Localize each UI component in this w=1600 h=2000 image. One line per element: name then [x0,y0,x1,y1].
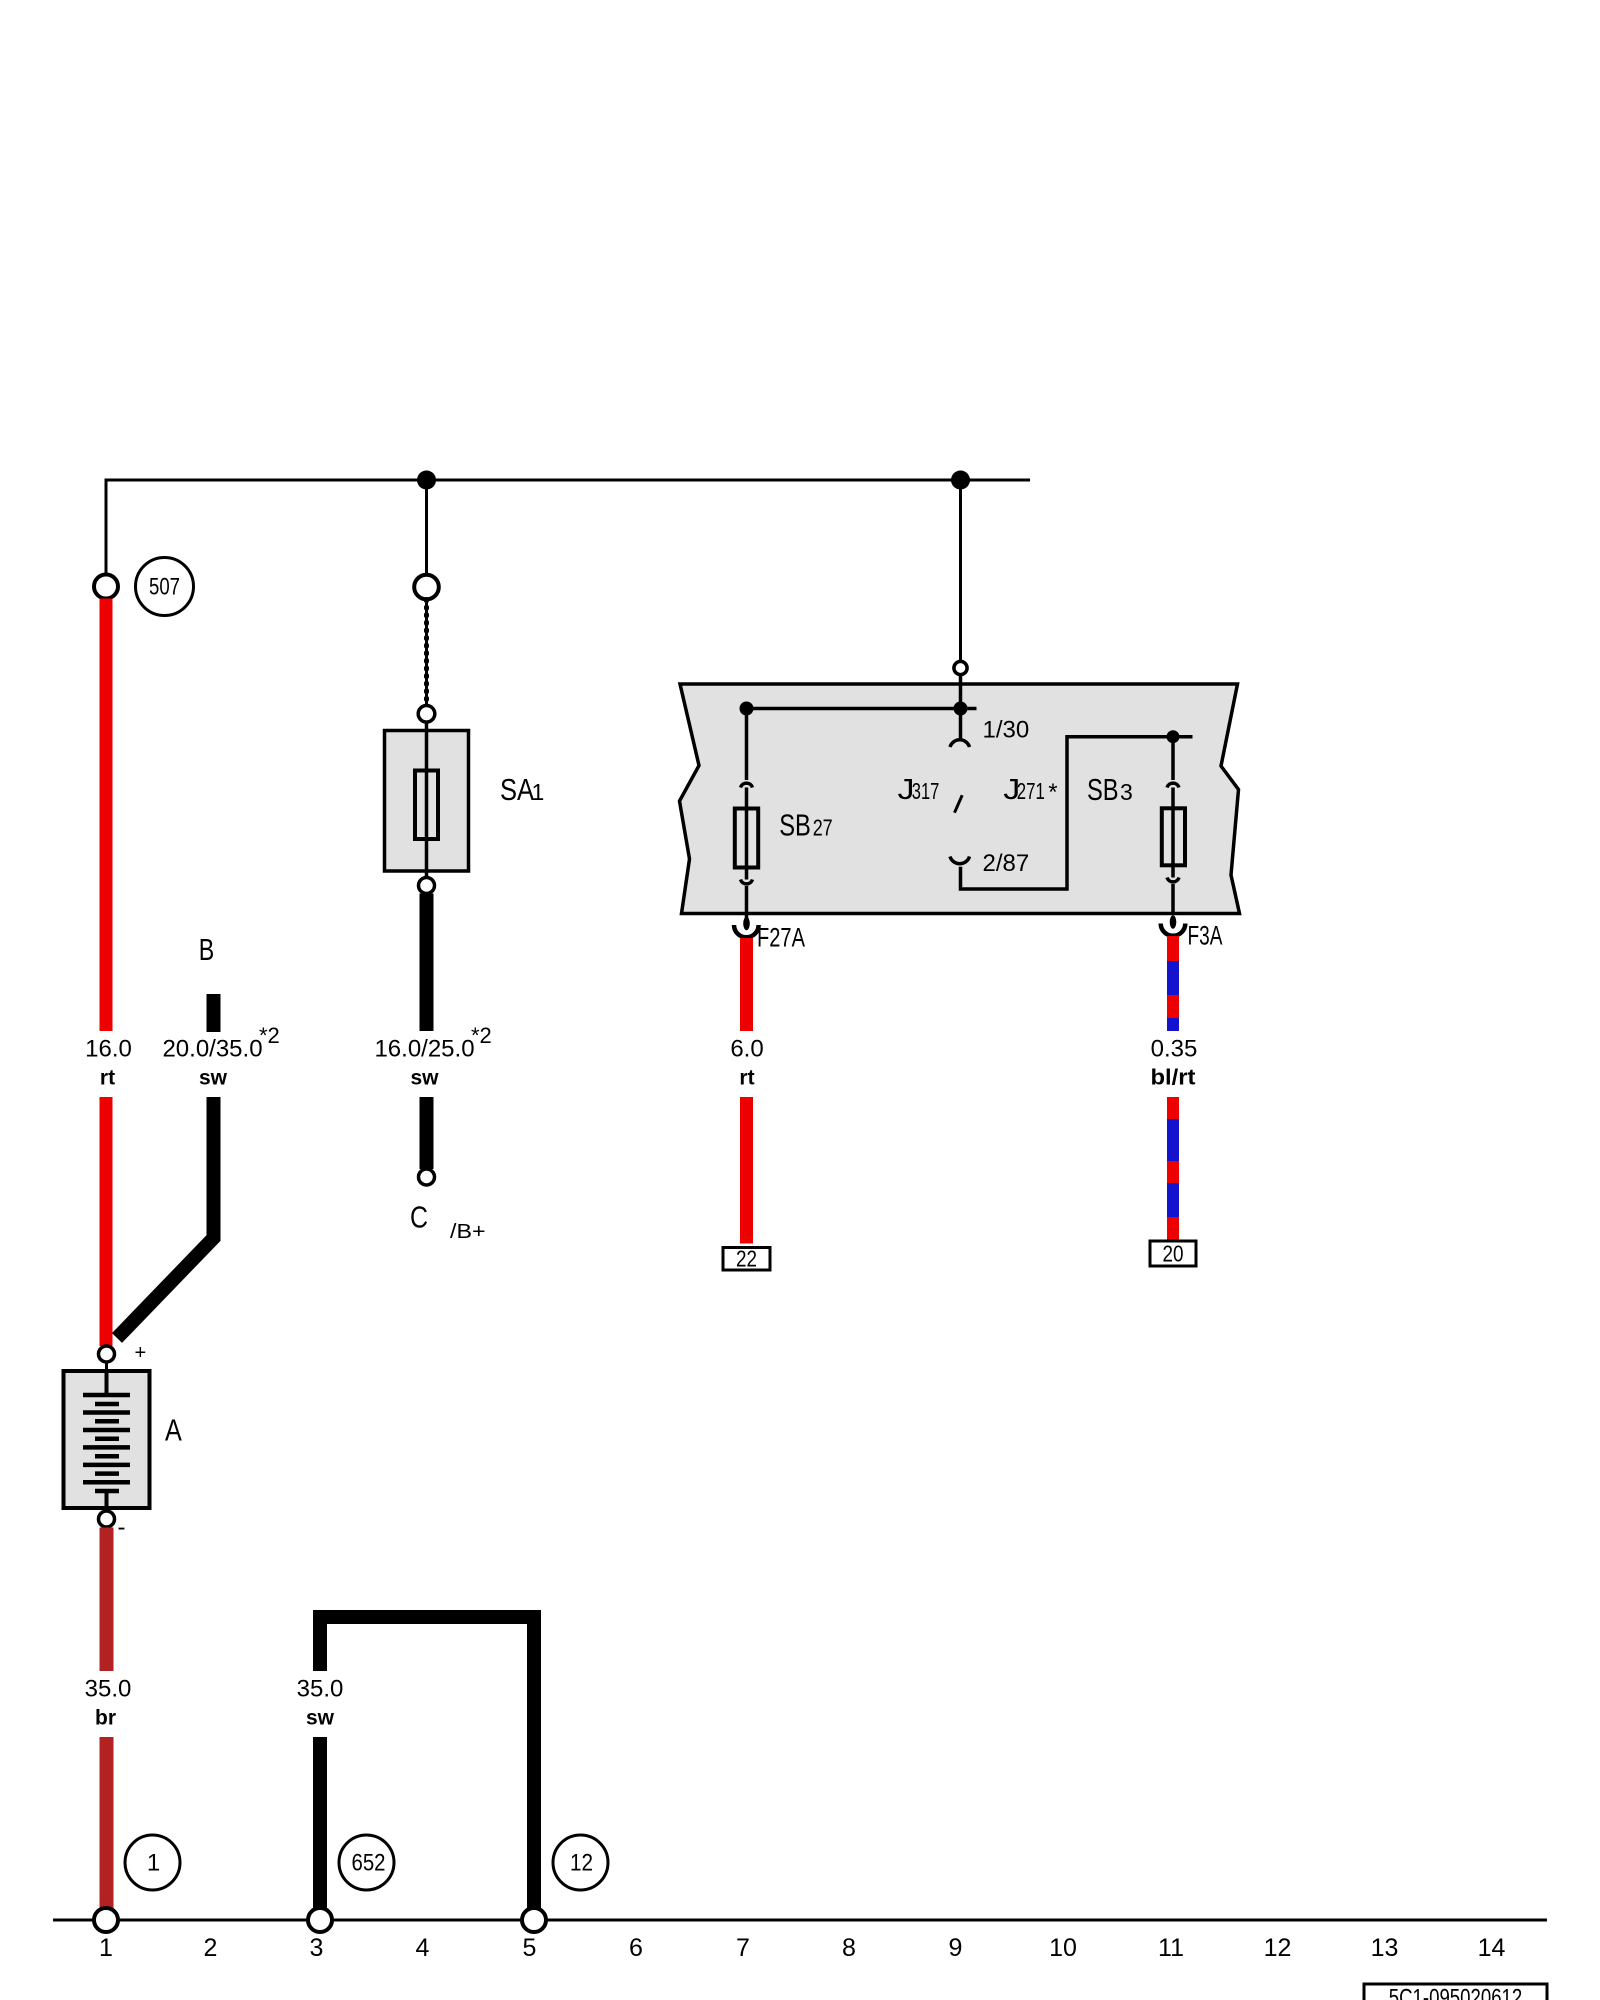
terminal circle above SA1 [414,575,439,600]
wire beaded link to SA1 [425,600,428,706]
svg-text:-: - [118,1514,126,1541]
svg-text:5C1-095020612: 5C1-095020612 [1389,1985,1523,2000]
node junction internal col7 [740,702,754,716]
wire SB27 to box edge [745,886,749,914]
svg-text:rt: rt [739,1067,754,1090]
svg-text:14: 14 [1478,1934,1506,1962]
svg-text:sw: sw [306,1707,335,1730]
fuse SB3 break arc top [1167,783,1179,787]
fuse SA1 element [415,771,438,840]
svg-text:2: 2 [204,1934,218,1962]
svg-text:6: 6 [629,1934,643,1962]
wire SB3 to box edge [1171,884,1175,914]
svg-text:/B+: /B+ [450,1221,486,1243]
wire 35.0 sw ground loop top bar [313,1610,541,1624]
wire 35.0 br lower segment [100,1737,114,1909]
svg-text:1: 1 [147,1850,160,1877]
node junction internal col9 [954,702,968,716]
fuse SB27 break arc top [741,783,753,787]
node label circle 507 [136,558,194,616]
wire 0.35 bl/rt lower segment [1167,1097,1179,1241]
connector circle below SA1 [419,878,435,894]
svg-text:br: br [95,1707,116,1730]
svg-text:F27A: F27A [757,922,805,952]
battery A box [64,1371,150,1508]
svg-text:3: 3 [1120,779,1133,805]
node junction at SB3 [1167,730,1180,743]
wire through SB27 [745,788,749,880]
wire drop to SA1 [425,480,428,575]
fuse SB3 break arc bottom [1167,878,1179,882]
wire into box [959,675,963,709]
svg-text:*: * [1048,779,1057,806]
svg-text:sw: sw [199,1067,228,1090]
svg-text:4: 4 [416,1934,430,1962]
svg-text:2/87: 2/87 [983,850,1030,877]
wire to contact 1/30 [959,709,963,740]
svg-text:27: 27 [813,815,833,841]
wire through SB3 [1171,788,1175,878]
svg-text:SB: SB [1087,772,1119,807]
svg-text:20.0/35.0: 20.0/35.0 [162,1036,262,1063]
terminal circle at node 507 [94,575,118,599]
ground terminal circle col3 [308,1908,332,1932]
svg-text:20: 20 [1163,1241,1184,1267]
wire 35.0 sw left leg lower [313,1737,327,1909]
svg-text:F3A: F3A [1188,921,1223,951]
switch lever / [955,795,963,813]
connector circle above SA1 [418,706,435,723]
node junction top bus col4 [417,471,436,490]
wire 35.0 sw left leg upper [313,1624,327,1671]
wire internal bus to SB27 [747,707,977,711]
svg-text:16.0: 16.0 [85,1036,132,1063]
svg-text:A: A [165,1413,182,1448]
svg-text:317: 317 [912,778,940,804]
svg-text:+: + [135,1342,147,1364]
svg-text:SB: SB [779,808,811,843]
wire 20.0/35.0 sw to battery positive [117,1097,214,1338]
fuse SA1 box [385,731,469,872]
ground label circle 12 [553,1835,608,1890]
svg-text:7: 7 [736,1934,750,1962]
fuse SB27 element [735,809,758,868]
wire 16.0 rt lower segment [100,1097,113,1346]
svg-text:SA: SA [500,772,534,807]
wire terminal to battery [105,1362,108,1372]
wire top bus [105,479,1031,482]
wire 20.0/35.0 sw stub [207,994,221,1032]
connector socket F3A [1161,924,1186,936]
node junction top bus col9 [951,471,970,490]
wire 2/87 to SB3 [961,737,1193,889]
svg-text:bl/rt: bl/rt [1151,1065,1197,1090]
svg-text:*2: *2 [259,1023,280,1048]
svg-text:507: 507 [149,573,180,600]
battery negative terminal circle [99,1511,115,1527]
wire through SA1 [425,722,429,878]
svg-text:rt: rt [100,1067,115,1090]
ground label circle 652 [339,1835,394,1890]
drawing number box 5C1-095020612 [1364,1984,1547,2000]
grid numbers 1-14 [99,1934,1505,1962]
svg-text:1: 1 [532,779,545,805]
svg-text:1/30: 1/30 [983,717,1030,744]
wire drop to J317 [959,480,962,662]
terminal circle C [419,1169,435,1185]
ground terminal circle col5 [522,1908,546,1932]
fuse SB3 lead [1171,737,1175,780]
battery positive terminal circle [99,1346,115,1362]
svg-text:1: 1 [99,1934,113,1962]
wire 16.0/25.0 sw lower segment [420,1097,434,1169]
svg-text:10: 10 [1049,1934,1077,1962]
connector pin F27A [745,914,749,919]
wire 16.0 rt upper segment [100,599,113,1032]
svg-text:9: 9 [949,1934,963,1962]
svg-text:16.0/25.0: 16.0/25.0 [374,1036,474,1063]
wire 35.0 br upper segment [100,1528,114,1672]
svg-text:3: 3 [310,1934,324,1962]
ground label circle 1 [125,1835,180,1890]
wire 6.0 rt upper segment [740,938,753,1031]
connector pin F3A [1170,915,1177,929]
svg-text:652: 652 [352,1850,386,1877]
svg-text:*2: *2 [471,1023,492,1048]
wire 16.0/25.0 sw upper segment [420,894,434,1032]
svg-text:6.0: 6.0 [730,1036,763,1063]
svg-text:35.0: 35.0 [85,1676,132,1703]
svg-text:11: 11 [1158,1934,1184,1962]
svg-text:sw: sw [410,1067,439,1090]
battery internal lead bottom [105,1491,109,1511]
svg-text:0.35: 0.35 [1151,1036,1198,1063]
wire drop to terminal 507 [105,480,108,575]
wire 35.0 sw right leg [527,1624,541,1909]
svg-text:13: 13 [1371,1934,1399,1962]
svg-text:271: 271 [1017,778,1045,804]
target box 22 [723,1248,770,1271]
svg-text:8: 8 [842,1934,856,1962]
svg-text:12: 12 [1264,1934,1292,1962]
svg-text:22: 22 [736,1246,757,1272]
fuse SB3 element [1162,808,1185,865]
wire 0.35 bl/rt upper segment [1167,936,1179,1031]
battery internal lead top [105,1371,109,1395]
contact socket 1/30 [950,740,970,747]
svg-text:B: B [199,932,215,967]
svg-text:35.0: 35.0 [297,1676,344,1703]
svg-text:5: 5 [523,1934,537,1962]
svg-text:C: C [410,1200,428,1235]
target box 20 [1150,1241,1196,1266]
ground terminal circle col1 [94,1908,118,1932]
battery plates [83,1395,130,1491]
contact socket 2/87 [950,857,970,864]
svg-text:12: 12 [570,1850,593,1877]
ground rail [53,1919,1547,1922]
wire 6.0 rt lower segment [740,1097,753,1244]
fuse SB27 lead [745,709,749,781]
connector socket F27A [734,925,759,937]
relay/fuse carrier box J317/J271 (gray plate with torn edges) [680,684,1240,914]
fuse SB27 break arc bottom [741,880,753,884]
terminal circle above J317 [954,661,967,674]
